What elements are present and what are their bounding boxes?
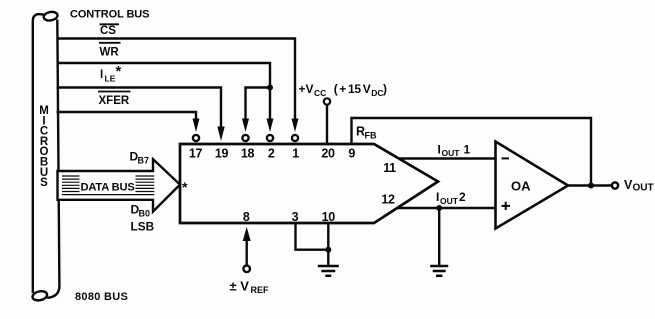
svg-text:1: 1 bbox=[292, 147, 299, 161]
svg-text:I: I bbox=[436, 190, 439, 204]
svg-text:20: 20 bbox=[321, 147, 335, 161]
wire IOUT2 to ground bbox=[438, 208, 440, 266]
junction dot WR branch bbox=[267, 85, 273, 91]
svg-text:18: 18 bbox=[241, 147, 255, 161]
svg-text:FB: FB bbox=[365, 131, 377, 141]
svg-text:10: 10 bbox=[322, 210, 336, 224]
svg-text:OUT: OUT bbox=[440, 196, 459, 206]
wire VCC to pin 20 bbox=[326, 105, 328, 144]
op-amp plus sign bbox=[502, 202, 511, 210]
arrowhead pin 17 bbox=[193, 119, 200, 133]
svg-text:8: 8 bbox=[243, 210, 250, 224]
op-amp OA bbox=[496, 142, 569, 229]
svg-text:*: * bbox=[182, 179, 188, 195]
svg-text:LSB: LSB bbox=[131, 219, 155, 233]
svg-text:3: 3 bbox=[292, 210, 299, 224]
svg-text:+V: +V bbox=[299, 82, 314, 96]
label DB0 bbox=[131, 203, 151, 219]
wire VREF to pin 8 bbox=[245, 238, 247, 265]
svg-text:15: 15 bbox=[348, 82, 361, 96]
svg-text:+: + bbox=[339, 82, 346, 96]
label VOUT bbox=[624, 178, 654, 194]
label IOUT2 bbox=[436, 190, 466, 206]
wire CS to pin 1 bbox=[57, 39, 296, 122]
VCC terminal bbox=[324, 98, 330, 104]
svg-text:1: 1 bbox=[464, 143, 471, 157]
label RFB bbox=[356, 125, 377, 141]
ground IOUT2 bbox=[430, 266, 448, 276]
svg-text:OA: OA bbox=[511, 179, 531, 194]
wire IOUT2 to op-amp bbox=[397, 207, 496, 209]
svg-text:11: 11 bbox=[383, 161, 396, 175]
svg-text:I: I bbox=[100, 69, 103, 81]
svg-text:8080 BUS: 8080 BUS bbox=[75, 291, 128, 303]
wire XFER to pin 17 bbox=[57, 112, 197, 121]
VREF terminal bbox=[243, 266, 250, 273]
svg-text:XFER: XFER bbox=[99, 95, 130, 107]
junction dot IOUT2 bbox=[436, 205, 442, 211]
svg-text:17: 17 bbox=[189, 147, 203, 161]
arrowhead VREF bbox=[243, 227, 251, 241]
microbus cylinder bbox=[32, 11, 60, 302]
svg-text:*: * bbox=[116, 63, 122, 80]
svg-text:REF: REF bbox=[251, 285, 270, 295]
label DB7 bbox=[130, 150, 150, 166]
svg-text:DC: DC bbox=[371, 88, 383, 98]
feedback wire RFB to output bbox=[352, 118, 592, 186]
svg-text:12: 12 bbox=[381, 193, 395, 207]
DAC chip body bbox=[180, 144, 438, 223]
svg-text:B0: B0 bbox=[139, 208, 151, 218]
svg-text:CC: CC bbox=[314, 88, 326, 98]
svg-text:OUT: OUT bbox=[633, 183, 654, 194]
svg-text:OUT: OUT bbox=[442, 148, 461, 158]
wire WR branch to pin 18 bbox=[246, 88, 271, 122]
svg-text:2: 2 bbox=[459, 190, 466, 204]
pin 17 terminal circle bbox=[193, 135, 199, 141]
wire pin10 to ground bbox=[327, 223, 329, 266]
svg-text:CONTROL BUS: CONTROL BUS bbox=[70, 9, 149, 21]
arrowhead pin 18 bbox=[242, 119, 249, 133]
svg-text:LE: LE bbox=[105, 73, 116, 83]
VOUT terminal bbox=[612, 182, 618, 188]
svg-text:CS: CS bbox=[100, 25, 116, 37]
svg-text:(: ( bbox=[334, 82, 338, 96]
svg-text:DATA BUS: DATA BUS bbox=[81, 181, 136, 193]
arrowhead CS bbox=[292, 119, 299, 133]
wire IOUT1 to op-amp bbox=[400, 157, 496, 159]
svg-text:9: 9 bbox=[348, 147, 355, 161]
op-amp minus sign bbox=[502, 157, 510, 159]
arrowhead WR pin2 bbox=[267, 119, 274, 133]
pin 18 terminal circle bbox=[242, 135, 248, 141]
svg-text:S: S bbox=[40, 177, 48, 189]
label IOUT 1 bbox=[438, 143, 471, 159]
label DATA BUS bbox=[80, 175, 136, 193]
ground pin10 bbox=[318, 266, 339, 276]
wire pin3 loop to pin10 bbox=[296, 223, 329, 250]
wire ILE to pin 19 bbox=[57, 88, 222, 130]
svg-text:B7: B7 bbox=[138, 155, 150, 165]
label MICROBUS (vertical) bbox=[39, 105, 49, 189]
data bus arrow bbox=[58, 159, 181, 212]
svg-text:± V: ± V bbox=[230, 279, 250, 294]
junction dot pin3/pin10 bbox=[325, 247, 331, 253]
svg-text:): ) bbox=[383, 82, 387, 96]
pin 2 terminal circle bbox=[267, 135, 273, 141]
label +VCC (+15 VDC) bbox=[299, 82, 388, 98]
svg-text:V: V bbox=[363, 82, 371, 96]
svg-text:2: 2 bbox=[268, 147, 275, 161]
data bus stripes bbox=[62, 176, 154, 195]
svg-text:WR: WR bbox=[100, 47, 120, 59]
pin 1 terminal circle bbox=[292, 135, 298, 141]
label ±VREF bbox=[230, 279, 270, 296]
arrowhead pin 19 bbox=[217, 127, 224, 142]
svg-text:19: 19 bbox=[215, 147, 229, 161]
junction dot output bbox=[588, 183, 594, 189]
svg-text:I: I bbox=[438, 143, 441, 157]
output wire bbox=[568, 184, 611, 186]
wire WR to pin 2 bbox=[57, 63, 271, 121]
